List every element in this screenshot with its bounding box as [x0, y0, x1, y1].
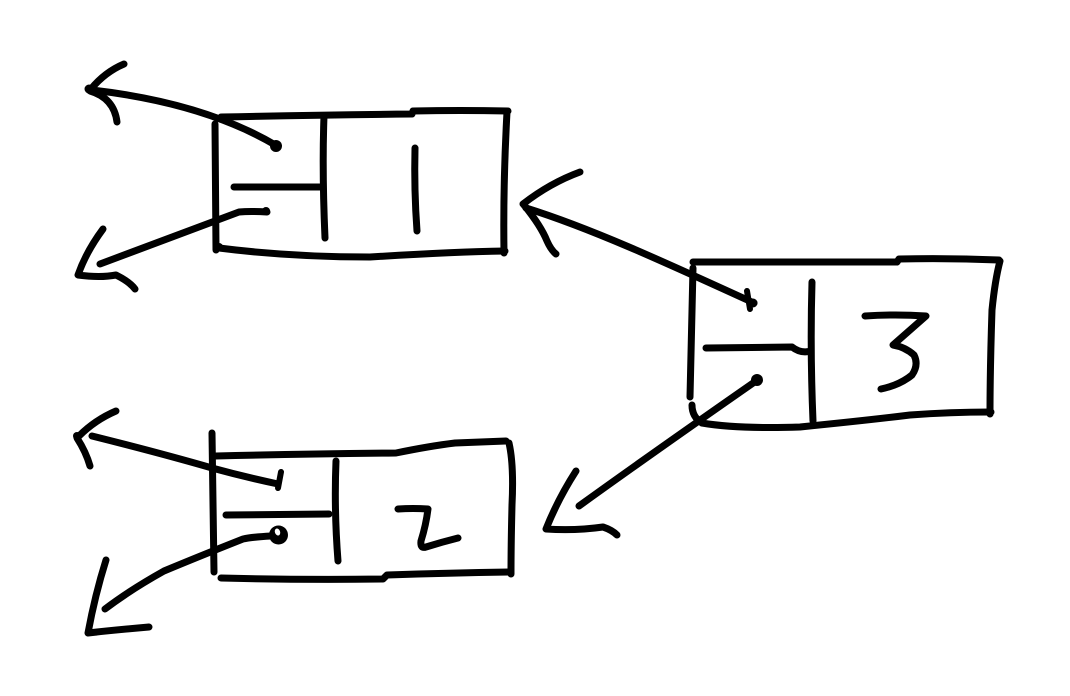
- node N1 left/right pointer separator: [234, 184, 322, 191]
- node N1 box left edge: [215, 124, 216, 250]
- arrowhead: N1 left pointer tip blob: [85, 85, 94, 94]
- node N1 left pointer dot: [270, 140, 282, 152]
- node N3 pointer-field divider: [811, 282, 813, 421]
- node N2 box left edge: [212, 433, 214, 572]
- wire: N3 left pointer arrow shaft (to N1): [526, 208, 754, 303]
- arrowhead: N2 right pointer: [88, 560, 149, 633]
- node N2 box right edge: [509, 443, 513, 574]
- wire: N1 right pointer arrow shaft: [100, 212, 267, 265]
- node N3 box top edge: [693, 259, 999, 262]
- node N2 pointer-field divider: [335, 461, 338, 561]
- node N3 left pointer origin dot: [749, 299, 758, 308]
- node N2 left pointer origin tick: [278, 472, 281, 488]
- wire: N2 left pointer arrow shaft: [92, 436, 278, 484]
- node N2 value digit 2: [398, 509, 458, 548]
- node N2 right pointer ring hole: [274, 528, 281, 537]
- wire: N1 left pointer arrow shaft: [92, 90, 277, 146]
- arrowhead: N2 left pointer upper barb: [79, 411, 116, 436]
- node N3 value digit 3: [865, 315, 926, 389]
- node N3 right pointer dot: [751, 374, 763, 386]
- node N1 right pointer dot: [262, 207, 270, 215]
- node N1 box bottom edge: [219, 248, 505, 257]
- node N3 box left edge: [690, 268, 693, 397]
- node N1 box right edge: [504, 112, 507, 253]
- arrowhead: N1 right pointer: [78, 229, 135, 289]
- node N1 value digit 1: [415, 148, 417, 231]
- node N2 right pointer ring blob: [269, 526, 288, 545]
- arrowhead: N3 right pointer: [546, 471, 617, 535]
- arrowhead: N2 left pointer lower barb: [77, 438, 90, 466]
- node N1 box top edge: [221, 111, 508, 118]
- node N1 bottom-left corner blob: [215, 243, 223, 251]
- wire: N2 right pointer arrow shaft: [105, 536, 271, 609]
- arrowhead: N1 left pointer lower barb: [90, 91, 117, 122]
- node N3 box bottom-left corner curve: [692, 405, 702, 423]
- node N3 left/right pointer separator: [706, 347, 811, 352]
- node N1 pointer-field divider: [323, 116, 325, 238]
- node N2 box top edge: [216, 441, 506, 456]
- node N3 left pointer origin tick: [747, 291, 750, 309]
- node N2 left/right pointer separator: [226, 514, 329, 515]
- wire: N3 right pointer arrow shaft: [579, 381, 756, 506]
- node N3 box right edge: [990, 261, 1000, 414]
- arrowhead: N1 left pointer upper barb: [91, 64, 124, 89]
- arrowhead: N2 left pointer tip blob: [73, 432, 81, 440]
- node N2 box bottom edge: [221, 572, 511, 579]
- arrowhead: N3 left pointer upper barb: [523, 172, 580, 204]
- node N3 box bottom edge: [702, 412, 991, 428]
- arrowhead: N3 left pointer lower barb: [524, 205, 556, 254]
